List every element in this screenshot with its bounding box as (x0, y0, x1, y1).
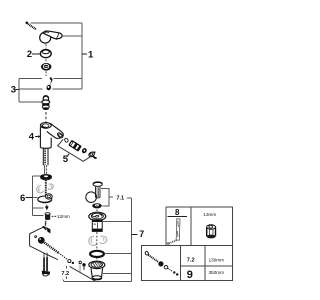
threaded shank (43, 148, 48, 174)
mounting ring (part of 6) (40, 174, 52, 180)
stop ring part (46, 84, 52, 91)
hex socket tool (207, 225, 216, 239)
label 7.2 (61, 266, 69, 279)
pop-up plug knob (93, 182, 102, 186)
lift rod clevis (42, 253, 50, 276)
lever handle (40, 31, 62, 43)
bracket 7.1 (101, 188, 113, 206)
pop-up rod (cell drawing) (145, 251, 179, 276)
bracket 6 (32, 176, 43, 216)
label 5 (63, 154, 69, 166)
svg-text:2: 2 (27, 49, 32, 60)
svg-text:7.1: 7.1 (116, 195, 124, 201)
cap ring part 2 (40, 50, 51, 58)
label 7 (132, 229, 145, 239)
svg-text:13mm: 13mm (203, 212, 216, 217)
label 2 (27, 49, 40, 60)
svg-text:350mm: 350mm (209, 270, 224, 275)
svg-text:7.2: 7.2 (187, 257, 195, 263)
svg-text:7.2: 7.2 (61, 271, 69, 277)
svg-text:13mm: 13mm (57, 214, 70, 219)
svg-text:6: 6 (20, 193, 25, 204)
dashed axis to lift assembly (45, 221, 47, 225)
svg-text:9: 9 (187, 269, 193, 281)
screw (cartridge retaining) (50, 78, 52, 83)
plug seat flange (89, 212, 106, 220)
dashed axis (cap to screw) (45, 71, 47, 76)
bracket 7 (103, 198, 132, 282)
bracket 3 (19, 79, 82, 102)
screw (handle set screw) (26, 22, 37, 30)
dashed axis (cartridge to body) (45, 112, 47, 123)
wire callout line top (screw to bracket 1) (31, 22, 83, 24)
wire callout line (handle to bracket 1) (62, 35, 82, 37)
connector diagonal 7.2 (70, 266, 96, 281)
label 6 (20, 193, 32, 204)
pivot ball and rod (38, 237, 86, 272)
arrow marker down (45, 205, 49, 211)
svg-text:130mm: 130mm (209, 258, 224, 263)
svg-text:3: 3 (11, 85, 16, 96)
drain strainer cup (89, 261, 105, 279)
dashed axis (ring to logo cap) (45, 59, 47, 62)
o-ring dark (aerator) (81, 147, 88, 154)
plate hole (34, 235, 37, 238)
cartridge (42, 96, 50, 110)
bracket 5 (58, 139, 91, 161)
label 1 (82, 49, 94, 60)
grey gasket (part of 6) (37, 184, 54, 193)
svg-text:1: 1 (88, 49, 94, 60)
logo cap (Grohe button) (41, 63, 51, 71)
pivot plate (30, 227, 58, 260)
label 3 (11, 85, 19, 96)
label 8 (168, 208, 187, 217)
hex nut 13mm (45, 213, 50, 220)
screw (plate) (42, 222, 50, 234)
13mm annotation (52, 214, 70, 219)
black o-ring (drain) (90, 251, 104, 257)
label 4 (29, 132, 41, 143)
spout end piece (88, 151, 97, 158)
threaded rod through 6 (45, 180, 47, 197)
plug stem (96, 187, 101, 198)
dashed axis (handle to cap ring) (45, 44, 47, 48)
bracket 1 vertical (81, 23, 83, 89)
o-ring dark (plug) (92, 203, 102, 208)
dashed axis through drain (96, 232, 98, 250)
table top box (166, 207, 233, 245)
svg-text:4: 4 (29, 132, 35, 143)
connector bottom line (63, 280, 132, 282)
plug body (92, 220, 102, 232)
hex key tool (167, 219, 180, 245)
table bottom box (141, 246, 232, 281)
svg-text:7: 7 (139, 229, 144, 239)
svg-text:8: 8 (175, 208, 180, 217)
aerator (mousseur) (69, 140, 81, 150)
horseshoe flange (part of 6) (38, 194, 52, 203)
seal ring circle (86, 192, 97, 203)
o-ring small (spout) (64, 138, 69, 143)
grey gasket (drain) (89, 236, 107, 245)
faucet body part 4 (40, 123, 63, 149)
